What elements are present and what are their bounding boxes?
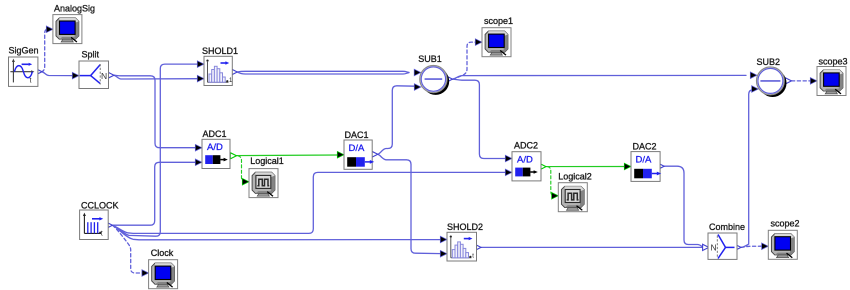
svg-text:SHOLD2: SHOLD2 (447, 222, 483, 232)
wire CCLOCK to ADC2 bottom (clock) (113, 172, 507, 233)
output port SHOLD1 (231, 69, 237, 75)
arrowhead into SUB2 pin2 (752, 86, 759, 93)
svg-text:Split: Split (81, 49, 99, 59)
wire SigGen to Split (42, 72, 74, 76)
block DAC1 (344, 140, 374, 169)
source block SigGen (9, 57, 38, 86)
source block CCLOCK (80, 210, 109, 240)
arrowhead into scope1 (475, 39, 482, 46)
block SHOLD1 (204, 56, 233, 85)
arrowhead into SHOLD2 pin2 (440, 250, 447, 257)
output port ADC2 (green) (540, 164, 546, 170)
wire SUB1 to ADC2 top (453, 79, 507, 158)
wire CCLOCK to SHOLD2 top (clock) (113, 225, 442, 240)
svg-text:AnalogSig: AnalogSig (54, 3, 95, 13)
wire ADC1 to DAC1 (green) (237, 154, 339, 157)
output port Split (108, 72, 114, 78)
wire ADC2 to Logical2 (green dashed) (548, 167, 555, 196)
svg-text:A/D: A/D (517, 154, 533, 165)
arrowhead into ADC2 pin2 (505, 169, 512, 176)
wire DAC1 to SUB1 bottom (378, 86, 415, 155)
arrowhead into ADC1 pin1 (195, 144, 202, 151)
arrowhead into Logical1 (242, 178, 249, 185)
block SUB1 (subtractor) (420, 66, 449, 95)
svg-text:ADC1: ADC1 (202, 129, 226, 139)
wire Combine to SUB2 bottom (741, 90, 753, 248)
arrowhead into scope2 (762, 243, 769, 250)
wire CCLOCK to SHOLD1 top (clock) (113, 64, 199, 236)
svg-text:SUB2: SUB2 (756, 57, 780, 67)
svg-text:SigGen: SigGen (8, 45, 38, 55)
input port Combine (703, 244, 709, 250)
output port SUB1 (446, 76, 452, 82)
svg-text:Logical1: Logical1 (250, 156, 284, 166)
arrowhead into ADC2 pin1 (505, 155, 512, 162)
wire SUB2 to scope3 (dashed) (792, 80, 812, 82)
svg-text:D/A: D/A (636, 155, 653, 166)
arrowhead into SUB1 pin1 (414, 69, 421, 76)
sink block scope3 (monitor) (817, 67, 846, 96)
block DAC2 (631, 152, 661, 182)
arrowhead into scope3 (810, 78, 817, 85)
arrowhead into Split (72, 72, 79, 79)
wire SHOLD1 to SUB1 top (double line a) (237, 71, 409, 72)
block Split (79, 61, 109, 89)
arrowhead into SUB1 pin2 (414, 84, 421, 91)
arrowhead into SUB2 pin1 (750, 72, 757, 79)
wire DAC1 to SHOLD2 bottom (378, 154, 442, 253)
wire DAC2 to Combine (664, 166, 703, 247)
svg-text:N: N (711, 243, 717, 253)
block ADC1 (202, 139, 230, 168)
wire SHOLD2 to Combine (481, 246, 703, 248)
arrowhead into AnalogSig (46, 26, 53, 33)
wire Split to ADC1 top (signal) (114, 75, 197, 148)
sink block Logical1 (monitor) (249, 169, 278, 198)
wire CCLOCK to Clock (dashed) (113, 225, 144, 273)
sink block AnalogSig (monitor) (53, 15, 82, 44)
wire SUB1 to scope1 (dashed) (453, 42, 477, 79)
wire ADC2 to DAC2 (green) (546, 166, 626, 168)
svg-text:t: t (101, 231, 103, 238)
svg-text:DAC2: DAC2 (632, 142, 656, 152)
block Combine (708, 233, 737, 259)
output port SigGen (36, 69, 42, 75)
svg-text:D/A: D/A (349, 143, 366, 154)
arrowhead into DAC2 (624, 163, 631, 170)
svg-text:ADC2: ADC2 (514, 141, 538, 151)
wire ADC1 to Logical1 (green dashed) (238, 156, 246, 182)
svg-text:scope3: scope3 (818, 57, 847, 67)
sink block Logical2 (monitor) (558, 183, 587, 212)
svg-text:SUB1: SUB1 (418, 54, 442, 64)
arrowhead into Clock (142, 270, 149, 277)
block SHOLD2 (447, 232, 477, 261)
svg-text:Combine: Combine (709, 222, 745, 232)
output port DAC2 (658, 163, 664, 169)
wire SigGen to AnalogSig (dashed) (42, 29, 49, 71)
arrowhead into SHOLD1 pin1 (197, 61, 204, 68)
svg-text:CCLOCK: CCLOCK (81, 201, 119, 211)
output port DAC1 (372, 151, 378, 157)
svg-text:SHOLD1: SHOLD1 (202, 46, 238, 56)
arrowhead into SHOLD1 pin2 (197, 75, 204, 82)
wire CCLOCK to ADC1 bottom (clock) (113, 162, 197, 225)
svg-text:t: t (30, 78, 32, 85)
svg-text:scope1: scope1 (484, 16, 513, 26)
wire SHOLD1 to SUB1 top (double line b) (237, 72, 409, 74)
output port SHOLD2 (475, 244, 481, 250)
output port ADC1 (green) (230, 153, 236, 159)
svg-text:Logical2: Logical2 (558, 172, 592, 182)
svg-text:Clock: Clock (151, 248, 174, 258)
output port SUB2 (785, 78, 791, 84)
wire Split to SHOLD1 bottom (signal) (114, 75, 199, 79)
output port Combine (735, 244, 741, 250)
output port CCLOCK (106, 222, 112, 228)
arrowhead into SHOLD2 pin1 (440, 236, 447, 243)
svg-text:N: N (101, 71, 107, 81)
arrowhead into DAC1 (337, 151, 344, 158)
wire SUB1 to SUB2 top (long) (453, 75, 747, 79)
block ADC2 (512, 152, 541, 181)
sink block Clock (monitor) (149, 260, 178, 289)
block SUB2 (subtractor) (757, 67, 787, 97)
wire Combine to scope2 (dashed) (741, 246, 763, 247)
sink block scope1 (monitor) (482, 28, 511, 57)
svg-text:DAC1: DAC1 (344, 130, 368, 140)
arrowhead into ADC1 pin2 (195, 159, 202, 166)
arrowhead into Logical2 (552, 193, 559, 200)
svg-text:scope2: scope2 (770, 219, 799, 229)
sink block scope2 (monitor) (768, 230, 797, 259)
svg-text:A/D: A/D (207, 142, 223, 153)
